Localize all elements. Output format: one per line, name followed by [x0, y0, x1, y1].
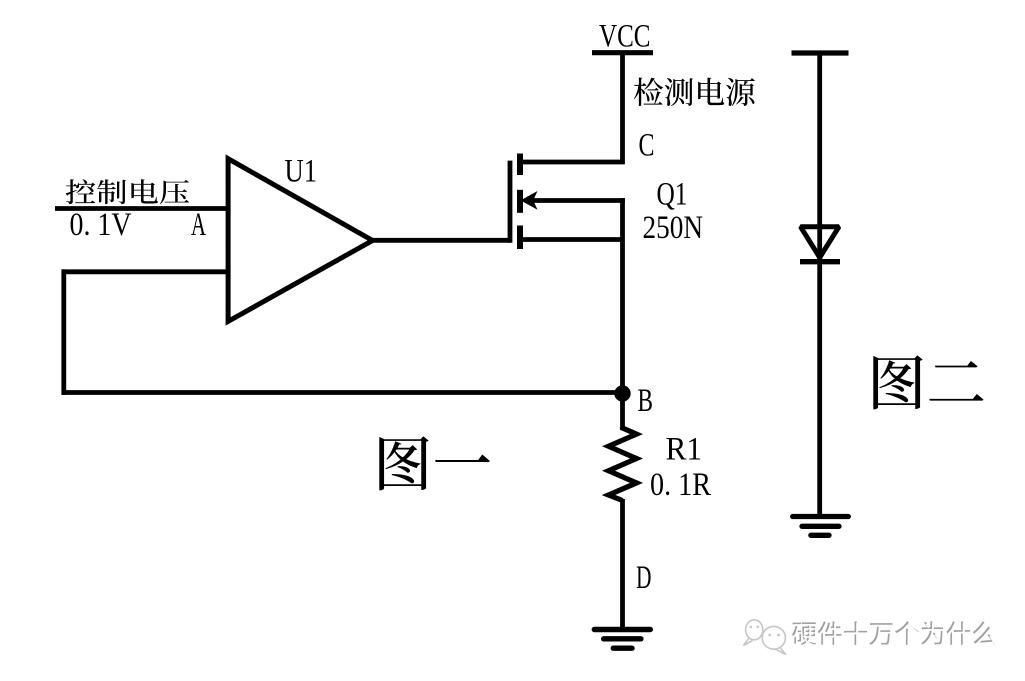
wire: feedback left vertical: [61, 269, 66, 395]
wire: cathode to ground: [817, 258, 822, 515]
ground (figure 1): [594, 630, 650, 649]
wire: feedback input horizontal: [62, 269, 229, 274]
label 控制电压 (control voltage): [66, 179, 189, 204]
wire: body connection with arrow: [532, 198, 626, 203]
label 图一 (figure 1): [379, 436, 489, 490]
svg-text:B: B: [638, 383, 654, 419]
svg-text:0. 1V: 0. 1V: [70, 207, 132, 243]
wire: control-voltage input to node A: [55, 206, 228, 211]
label 图二 (figure 2): [873, 355, 983, 409]
label 检测电源 (sense supply): [634, 78, 755, 106]
svg-text:C: C: [639, 128, 655, 164]
node B junction dot: [614, 385, 630, 401]
ground (figure 2): [793, 517, 849, 536]
power VCC rail bar: [592, 50, 653, 55]
wire: anode from rail to diode: [817, 53, 822, 259]
svg-text:R1: R1: [666, 432, 703, 468]
svg-text:VCC: VCC: [599, 19, 651, 55]
svg-text:D: D: [636, 560, 652, 596]
svg-text:U1: U1: [285, 154, 318, 190]
svg-text:A: A: [191, 207, 206, 243]
op-amp U1: [228, 159, 372, 322]
svg-text:0. 1R: 0. 1R: [650, 467, 711, 503]
transistor Q1 (N-MOSFET): [510, 154, 538, 250]
wire: source down to node B and resistor: [620, 198, 625, 429]
svg-text:250N: 250N: [643, 210, 704, 246]
watermark text 硬件十万个为什么: [792, 621, 995, 645]
power rail bar (figure 2): [792, 50, 849, 55]
wire: feedback bottom run to node B: [62, 390, 623, 395]
wire: source: [521, 237, 623, 242]
diode (figure 2): [800, 227, 840, 262]
watermark logo (chat bubbles): [744, 620, 786, 655]
wire: drain to VCC: [521, 52, 623, 162]
wire: resistor to ground: [620, 499, 625, 629]
wire: op-amp output to gate: [370, 238, 510, 243]
svg-text:Q1: Q1: [657, 177, 688, 213]
resistor R1 zigzag: [609, 427, 637, 501]
